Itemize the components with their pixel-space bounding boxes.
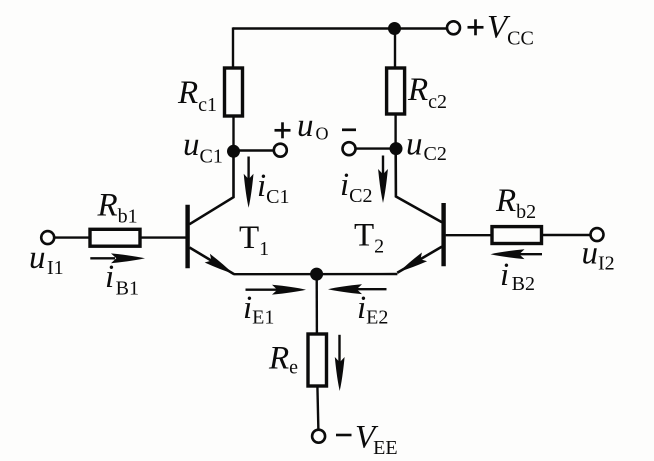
terminal -VEE [312,430,325,443]
wire node uC1 to + output terminal [234,149,275,151]
terminal +VCC [447,21,460,34]
wire Rc1 to node uC1 [232,116,234,151]
wire minus output terminal to node uC2 [355,147,396,149]
transistor T2 emitter arrowhead [397,252,427,276]
wire Re to -VEE terminal [317,386,318,431]
resistor Rc1 body [225,68,243,116]
wire Rb2 to input uI2 [542,234,592,236]
arrow iE1 [246,285,307,295]
arrow iB1 [90,253,145,263]
resistor Rc2 body [387,68,405,114]
wire input uI1 to Rb1 [54,236,90,238]
resistor Rb2 body [492,227,542,244]
terminal uI1 [41,231,54,244]
transistor T2 collector lead [396,155,442,223]
wire top rail [233,27,447,29]
wire T2 base to Rb2 [446,234,492,236]
arrow iB2 [491,249,543,259]
node E emitter junction [310,268,323,281]
node uC2 [390,142,403,155]
wire rail node drop to Rc2 [394,29,396,69]
resistor Rb1 body [90,229,140,246]
node uC1 [227,145,240,158]
wire Rc2 to node uC2 [394,114,396,149]
resistor Re body [308,334,327,386]
arrow iC2 [378,156,388,204]
label -VEE minus sign [336,434,352,437]
label uO plus sign [275,122,291,138]
arrow iC1 [244,157,254,208]
transistor T1 collector lead [189,157,233,224]
terminal uO plus [274,144,287,157]
terminal uO minus [343,142,356,155]
label +VCC plus sign [468,19,484,35]
transistor T2 emitter lead [397,247,442,273]
wire Rb1 to T1 base [140,236,186,238]
wire emitter rail [234,273,398,276]
transistor T1 emitter arrowhead [205,254,236,278]
transistor T1 base bar [185,205,189,268]
terminal uI2 [591,228,604,241]
wire node E to Re [316,274,319,335]
label uO minus sign [342,128,356,131]
arrow iE2 [328,284,387,294]
transistor T1 emitter lead [190,248,235,275]
arrow through Re [335,335,345,391]
transistor T2 base bar [441,203,445,266]
node on top rail [388,22,401,35]
wire top-left drop to Rc1 [232,27,234,68]
